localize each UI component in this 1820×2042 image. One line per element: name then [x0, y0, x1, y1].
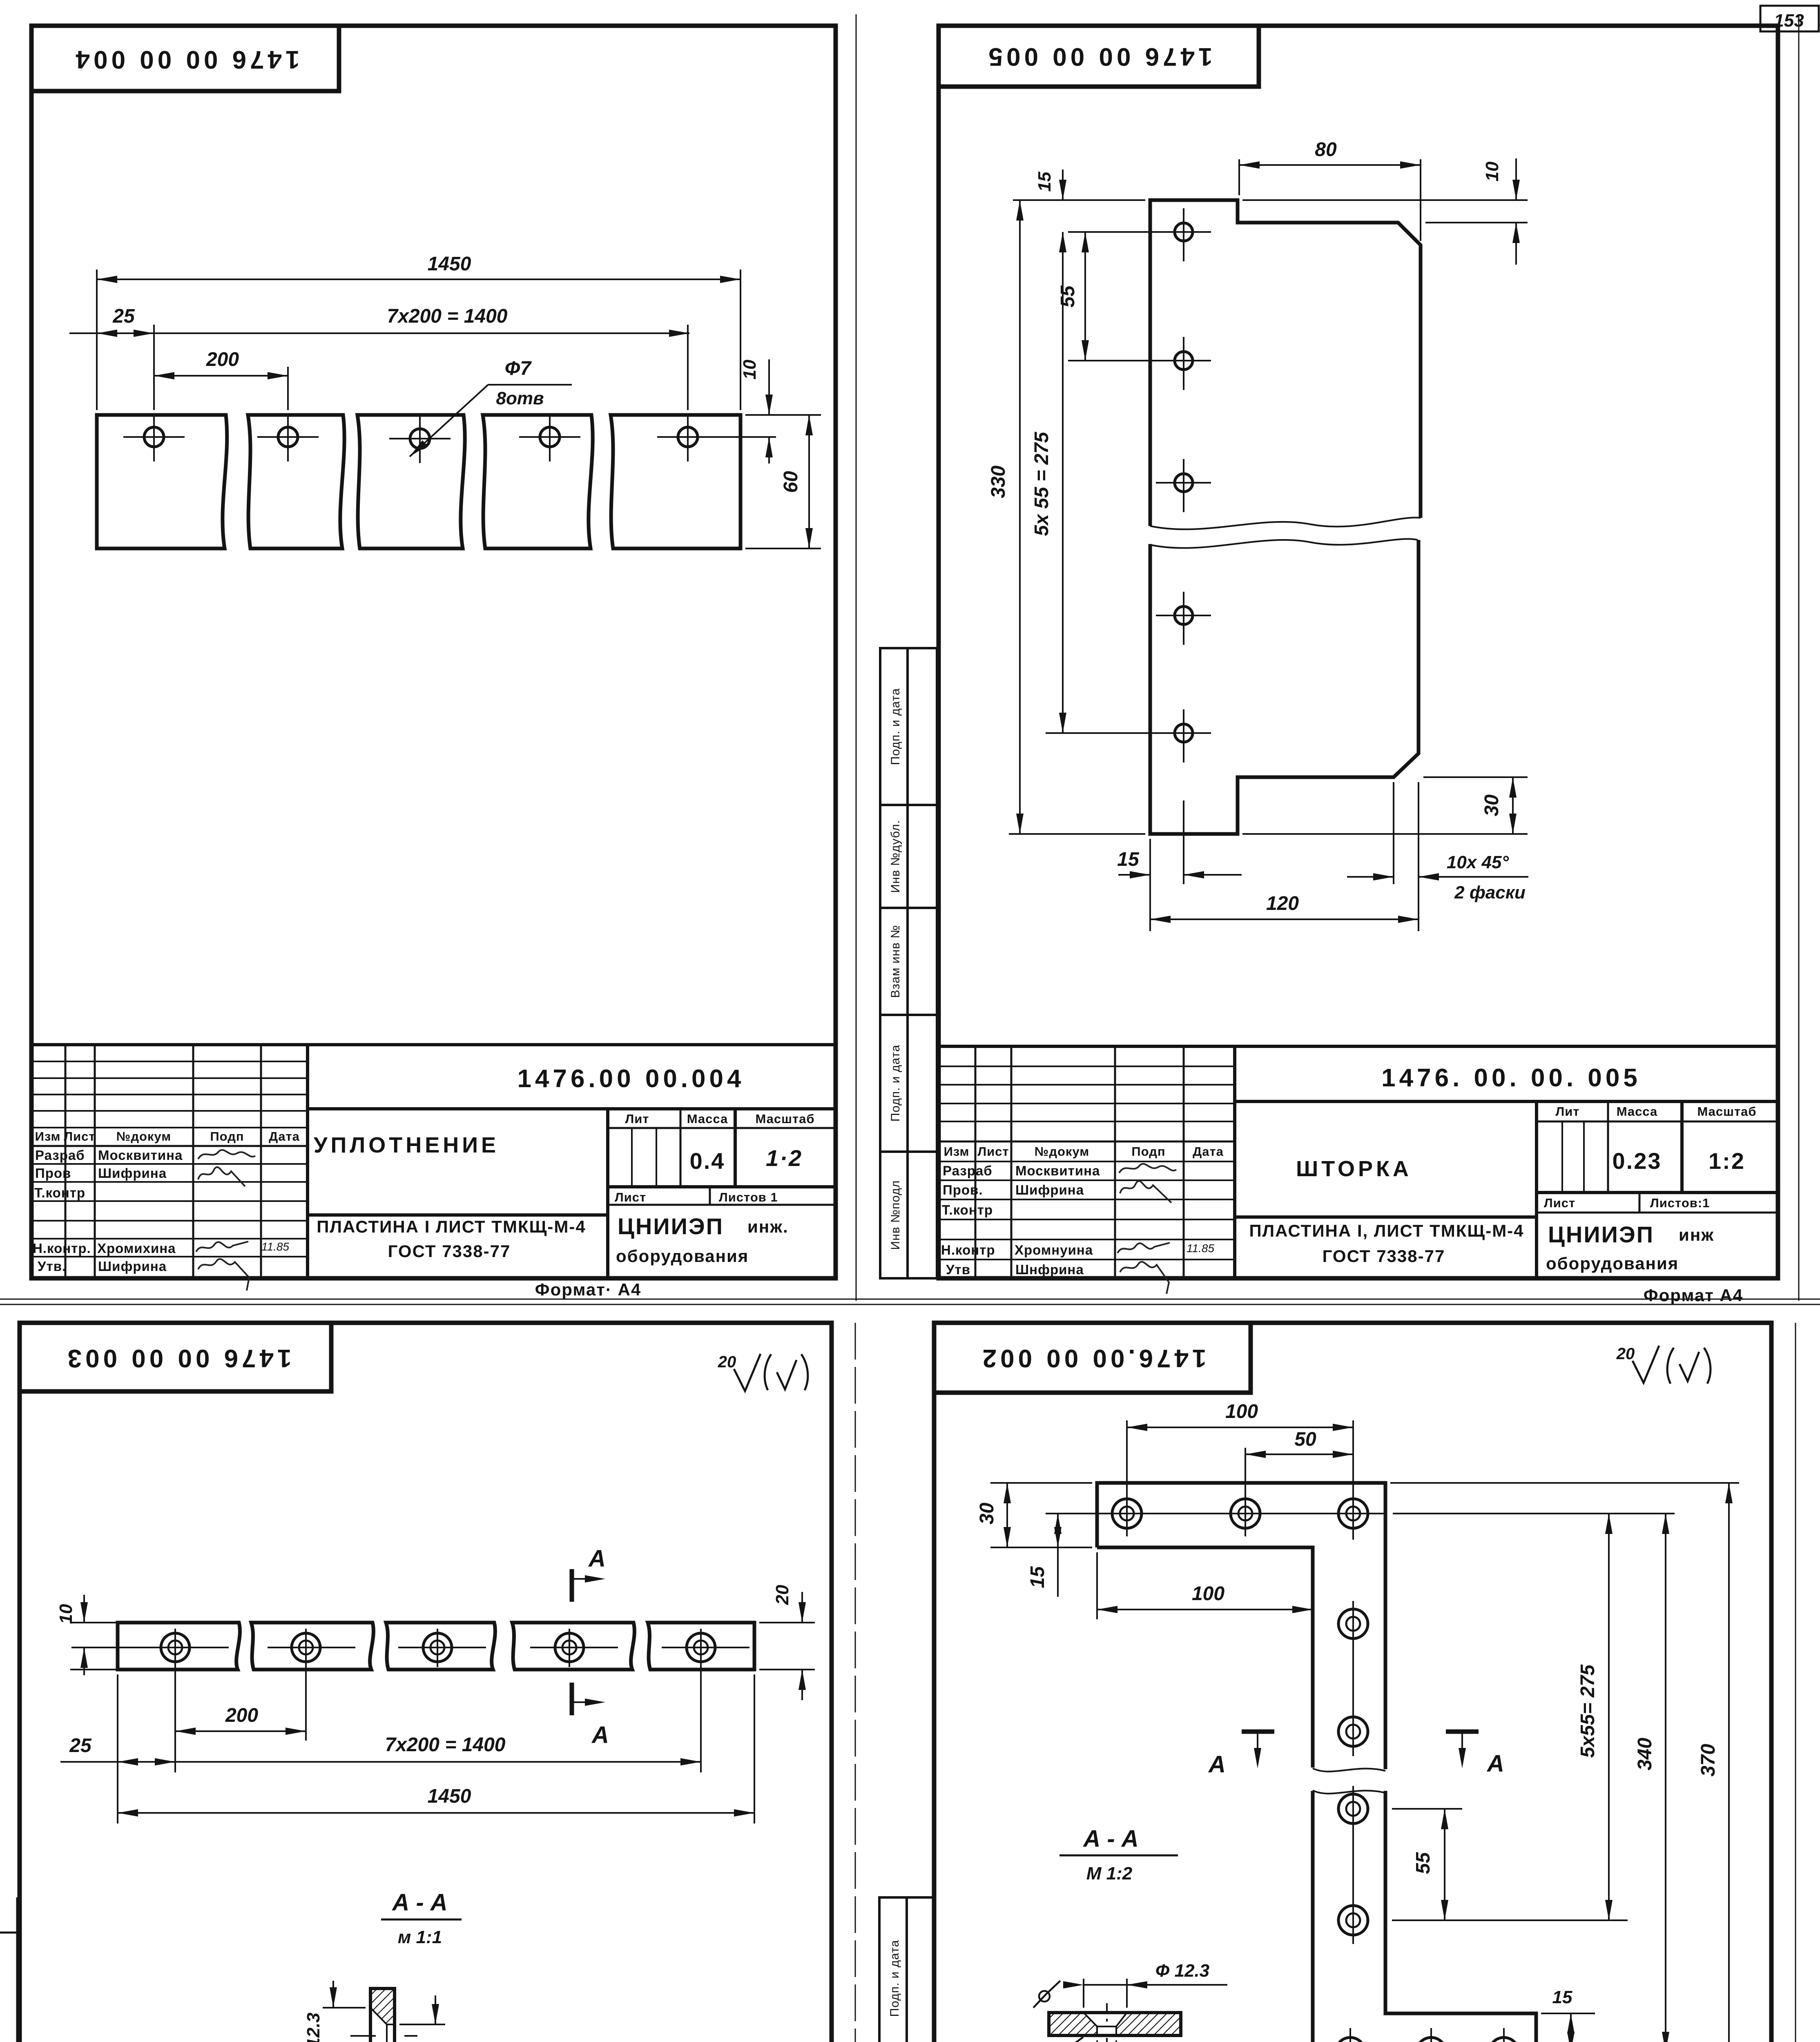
svg-text:10x 45°: 10x 45°	[1447, 852, 1509, 872]
svg-text:Хромихина: Хромихина	[97, 1241, 176, 1256]
break wavy lines	[1313, 1768, 1385, 1772]
svg-text:200: 200	[206, 349, 239, 370]
dim 30/15 left verticals	[1006, 1483, 1008, 1547]
label box TR	[939, 26, 1259, 87]
svg-text:Москвитина: Москвитина	[98, 1148, 183, 1163]
svg-text:30: 30	[1481, 794, 1503, 816]
csk hole 3	[423, 1633, 452, 1662]
svg-text:Подп. и дата: Подп. и дата	[888, 1940, 901, 2017]
hole 5	[1175, 724, 1193, 742]
svg-text:ПЛАСТИНА I ЛИСТ ТМКЩ-М-4: ПЛАСТИНА I ЛИСТ ТМКЩ-М-4	[317, 1217, 586, 1236]
svg-text:Пров.: Пров.	[943, 1182, 983, 1197]
svg-text:25: 25	[69, 1735, 92, 1757]
cut line horizontal double	[0, 1299, 1820, 1300]
svg-text:50: 50	[1294, 1429, 1316, 1450]
right dim verticals	[1728, 1483, 1730, 2042]
sheet frame bottom-right	[934, 1323, 1771, 2042]
csk hole stem4	[1338, 1906, 1368, 1935]
svg-text:Ф12.3: Ф12.3	[303, 2013, 323, 2042]
svg-text:8отв: 8отв	[496, 388, 544, 408]
svg-text:Масса: Масса	[687, 1112, 728, 1126]
extension lines	[1013, 199, 1145, 201]
csk hole stem2	[1338, 1717, 1368, 1746]
svg-text:Формат А4: Формат А4	[1644, 1286, 1743, 1305]
svg-text:10: 10	[56, 1604, 76, 1624]
svg-text:20: 20	[718, 1353, 736, 1371]
svg-text:1476. 00. 00. 005: 1476. 00. 00. 005	[1381, 1064, 1641, 1092]
hole 2	[278, 427, 298, 447]
plate segment 2	[248, 415, 344, 548]
plate segment 4	[483, 415, 593, 548]
svg-text:А - А: А - А	[391, 1889, 447, 1916]
label box BR	[934, 1323, 1251, 1393]
svg-text:Масштаб: Масштаб	[755, 1112, 814, 1126]
csk hole arm3	[1338, 1499, 1368, 1528]
machining marks	[1033, 1981, 1083, 2042]
svg-text:ГОСТ 7338-77: ГОСТ 7338-77	[388, 1242, 511, 1261]
label box TL	[31, 26, 339, 91]
hole 4	[540, 427, 560, 447]
right paper edge top	[1798, 16, 1800, 1301]
svg-text:120: 120	[1266, 893, 1299, 914]
dim 100/50 top lines	[1127, 1427, 1353, 1428]
svg-text:Подп: Подп	[1131, 1144, 1165, 1159]
svg-text:А: А	[591, 1722, 609, 1748]
svg-text:М 1:2: М 1:2	[1086, 1864, 1133, 1884]
hole 4	[1175, 606, 1193, 624]
dim 200	[154, 375, 288, 377]
section marks A	[1242, 1730, 1274, 1734]
sheet frame top-left	[31, 26, 836, 1278]
svg-text:Инв №подл: Инв №подл	[889, 1180, 902, 1250]
svg-text:Лист: Лист	[615, 1190, 646, 1204]
svg-text:Шифрина: Шифрина	[98, 1259, 167, 1274]
part outline upper piece	[1150, 200, 1421, 526]
svg-text:Изм: Изм	[35, 1129, 61, 1144]
dim 1450	[118, 1812, 754, 1814]
svg-text:Пров: Пров	[35, 1166, 71, 1181]
dim 15 bottom	[1118, 874, 1150, 876]
svg-text:Утв: Утв	[946, 1262, 970, 1277]
plate segment 3	[357, 415, 465, 548]
TR left-margin stamp column	[880, 648, 937, 1278]
svg-text:340: 340	[1634, 1738, 1656, 1770]
svg-text:Подп: Подп	[210, 1129, 244, 1144]
svg-text:м 1:1: м 1:1	[398, 1927, 442, 1947]
dim 25 / 7x200=1400	[69, 332, 689, 334]
svg-text:1450: 1450	[428, 253, 471, 275]
csk hole stem1	[1338, 1609, 1368, 1639]
svg-text:Масса: Масса	[1617, 1104, 1658, 1119]
svg-text:№докум: №докум	[116, 1129, 171, 1144]
hole 1	[144, 427, 164, 447]
break wavy lines	[1150, 517, 1421, 529]
svg-text:15: 15	[1027, 1566, 1048, 1588]
plate segment 2	[251, 1623, 373, 1670]
svg-text:Разраб: Разраб	[943, 1163, 993, 1178]
hole 1	[1175, 223, 1193, 241]
svg-text:2 фаски: 2 фаски	[1454, 883, 1526, 903]
cut line between columns top	[856, 14, 857, 1301]
dim 10 top right	[1515, 158, 1517, 200]
dim 25 / 7x200	[60, 1761, 701, 1763]
svg-text:Т.контр: Т.контр	[942, 1202, 993, 1217]
svg-text:А: А	[1486, 1750, 1504, 1777]
svg-text:Разраб: Разраб	[35, 1148, 85, 1163]
svg-text:Дата: Дата	[1193, 1144, 1224, 1159]
svg-text:Лит: Лит	[625, 1112, 649, 1126]
svg-text:5x55= 275: 5x55= 275	[1577, 1664, 1599, 1758]
page number box 153	[1760, 6, 1819, 31]
svg-text:ШТОРКА: ШТОРКА	[1296, 1157, 1412, 1181]
dim 100 lower	[1096, 1552, 1098, 1619]
section A-A BL	[370, 1988, 395, 2042]
svg-text:Ф7: Ф7	[505, 358, 532, 379]
dim 30 right	[1512, 777, 1514, 834]
svg-text:1476 00 00 003: 1476 00 00 003	[64, 1344, 292, 1372]
svg-text:Хромнуина: Хромнуина	[1015, 1242, 1093, 1257]
svg-text:Инв №дубл.: Инв №дубл.	[889, 820, 902, 893]
hole 3	[1175, 474, 1193, 492]
svg-text:Н.контр: Н.контр	[941, 1242, 995, 1257]
svg-text:Шнфрина: Шнфрина	[1015, 1262, 1084, 1277]
section A-A BR	[1049, 2013, 1181, 2035]
svg-text:Т.контр: Т.контр	[34, 1185, 85, 1200]
svg-text:Изм: Изм	[944, 1144, 970, 1159]
dim 1450	[97, 279, 740, 280]
svg-text:Лит: Лит	[1556, 1104, 1580, 1119]
F6.5 ext	[399, 2024, 445, 2025]
svg-text:ПЛАСТИНА I, ЛИСТ ТМКЩ-М-4: ПЛАСТИНА I, ЛИСТ ТМКЩ-М-4	[1249, 1221, 1524, 1240]
dim 60 right	[745, 548, 821, 549]
svg-text:55: 55	[1057, 285, 1079, 308]
signatures TR	[1117, 1164, 1176, 1294]
surface finish mark 20 v(v)	[734, 1354, 808, 1391]
svg-text:1450: 1450	[428, 1786, 471, 1807]
svg-text:1476.00 00 002: 1476.00 00 002	[979, 1344, 1207, 1372]
svg-text:100: 100	[1192, 1583, 1224, 1605]
svg-text:0.4: 0.4	[690, 1148, 725, 1174]
svg-text:Формат· А4: Формат· А4	[535, 1280, 641, 1299]
ext left	[990, 1482, 1092, 1484]
part outline lower piece	[1313, 1791, 1536, 2042]
csk hole arm1	[1112, 1499, 1142, 1528]
svg-text:Подп. и дата: Подп. и дата	[889, 1045, 902, 1122]
plate segment 1	[118, 1623, 240, 1670]
svg-text:30: 30	[976, 1503, 998, 1525]
svg-text:330: 330	[988, 466, 1009, 498]
svg-text:7x200 = 1400: 7x200 = 1400	[385, 1734, 506, 1756]
svg-text:ЦНИИЭП: ЦНИИЭП	[1548, 1222, 1654, 1247]
dim 120	[1150, 918, 1419, 920]
svg-text:15: 15	[1117, 849, 1140, 870]
arrowheads TL	[97, 276, 117, 283]
dim 10 right	[745, 414, 821, 416]
svg-text:Шифрина: Шифрина	[1015, 1182, 1084, 1197]
svg-text:25: 25	[112, 305, 135, 327]
svg-text:Взам инв №: Взам инв №	[889, 925, 902, 998]
right ext lines	[759, 1622, 815, 1623]
left ext lines	[70, 1622, 118, 1623]
svg-text:1476 00 00 005: 1476 00 00 005	[985, 42, 1213, 71]
svg-text:Лист: Лист	[977, 1144, 1009, 1159]
hole centerlines	[71, 1647, 229, 1648]
BL cut-off margin boxes at left page edge	[0, 1897, 17, 2042]
dim 80	[1239, 164, 1421, 166]
svg-text:УПЛОТНЕНИЕ: УПЛОТНЕНИЕ	[314, 1133, 499, 1157]
dim 10x45	[1347, 876, 1394, 878]
svg-text:оборудования: оборудования	[1546, 1254, 1679, 1273]
svg-text:15: 15	[1552, 1987, 1572, 2007]
svg-text:ГОСТ 7338-77: ГОСТ 7338-77	[1323, 1246, 1445, 1266]
right paper edge bottom	[1795, 1323, 1796, 2042]
csk hole arm2	[1231, 1499, 1260, 1528]
svg-text:А - А: А - А	[1082, 1826, 1138, 1852]
svg-text:Лист: Лист	[64, 1129, 95, 1144]
svg-text:инж: инж	[1679, 1225, 1714, 1244]
hole 3	[410, 429, 430, 448]
svg-text:инж.: инж.	[747, 1217, 789, 1236]
svg-text:Ф 12.3: Ф 12.3	[1155, 1961, 1209, 1981]
svg-text:№докум: №докум	[1035, 1144, 1089, 1159]
svg-text:Москвитина: Москвитина	[1015, 1163, 1100, 1178]
cut line between columns bottom	[855, 1323, 856, 2042]
svg-text:Листов 1: Листов 1	[719, 1190, 778, 1204]
svg-text:оборудования: оборудования	[616, 1246, 749, 1266]
svg-text:Шифрина: Шифрина	[98, 1166, 167, 1181]
svg-text:200: 200	[225, 1705, 258, 1726]
plate segment 5	[648, 1623, 754, 1670]
section mark A lower	[570, 1683, 574, 1715]
sheet frame top-right	[939, 26, 1778, 1278]
csk hole stem3	[1338, 1794, 1368, 1824]
plate segment 1	[97, 415, 227, 548]
part outline lower piece	[1150, 540, 1419, 834]
svg-text:Масштаб: Масштаб	[1697, 1104, 1756, 1119]
plate segment 3	[386, 1623, 495, 1670]
hole centerlines	[1068, 231, 1211, 233]
svg-text:20: 20	[1616, 1345, 1635, 1363]
svg-text:1:2: 1:2	[1708, 1148, 1745, 1174]
part outline upper piece	[1097, 1483, 1385, 1769]
centerlines	[1046, 1513, 1387, 1514]
svg-text:А: А	[1208, 1751, 1226, 1778]
svg-text:370: 370	[1697, 1744, 1719, 1777]
svg-text:1·2: 1·2	[766, 1145, 803, 1171]
svg-text:10: 10	[1482, 161, 1502, 181]
arrowheads BR	[1127, 1424, 1147, 1431]
label box BL	[20, 1323, 331, 1391]
csk hole 2	[292, 1633, 320, 1662]
axis	[350, 2035, 376, 2037]
hole centerlines	[123, 436, 185, 438]
extension lines up	[96, 270, 98, 410]
svg-text:10: 10	[740, 359, 760, 379]
csk hole 1	[161, 1633, 190, 1662]
csk hole 4	[555, 1633, 584, 1662]
ext lines top	[1126, 1420, 1128, 1491]
dim 200	[175, 1730, 306, 1732]
svg-text:1476 00 00 004: 1476 00 00 004	[72, 45, 300, 74]
right ext lines	[1390, 1482, 1739, 1484]
csk hole foot3	[1489, 2038, 1519, 2042]
svg-text:0.23: 0.23	[1613, 1148, 1662, 1174]
svg-text:153: 153	[1774, 11, 1804, 31]
hole 5	[678, 427, 698, 447]
BR left-margin stamp column	[879, 1897, 934, 2042]
surface finish mark 20 v(v)	[1633, 1346, 1711, 1384]
csk hole foot1	[1336, 2038, 1365, 2042]
svg-text:Листов:1: Листов:1	[1650, 1196, 1710, 1210]
ext down	[117, 1674, 118, 1824]
arrowheads TR	[1512, 180, 1520, 200]
svg-text:11.85: 11.85	[1187, 1242, 1214, 1255]
svg-text:ЦНИИЭП: ЦНИИЭП	[618, 1213, 724, 1239]
F12.3 ext	[323, 2007, 366, 2009]
hole 2	[1175, 352, 1193, 370]
svg-text:1476.00 00.004: 1476.00 00.004	[517, 1065, 745, 1093]
svg-text:55: 55	[1412, 1852, 1434, 1874]
svg-text:20: 20	[772, 1585, 792, 1605]
plate segment 5	[611, 415, 740, 548]
signatures TL	[196, 1150, 255, 1291]
csk hole foot2	[1416, 2038, 1446, 2042]
svg-text:А: А	[588, 1545, 606, 1572]
leader F7	[410, 385, 488, 457]
svg-text:Утв.: Утв.	[38, 1259, 66, 1274]
svg-text:60: 60	[780, 471, 802, 493]
plate segment 4	[512, 1623, 634, 1670]
svg-text:Подп. и дата: Подп. и дата	[889, 688, 902, 765]
csk hole 5	[687, 1633, 715, 1662]
section mark A upper	[570, 1569, 574, 1602]
svg-text:11.85: 11.85	[261, 1240, 289, 1253]
svg-text:15: 15	[1035, 172, 1055, 192]
svg-text:7x200 = 1400: 7x200 = 1400	[387, 305, 508, 327]
dim 10 left	[83, 1595, 85, 1623]
sheet frame bottom-left	[20, 1323, 832, 2042]
svg-text:Н.контр.: Н.контр.	[33, 1241, 91, 1256]
dim 15 top + 5x55 + 330 verticals	[1062, 169, 1064, 200]
svg-text:100: 100	[1225, 1401, 1258, 1422]
arrowheads BL	[80, 1602, 88, 1623]
svg-text:Дата: Дата	[269, 1129, 300, 1144]
dim 20 right	[801, 1592, 803, 1623]
svg-text:80: 80	[1315, 139, 1337, 161]
svg-text:5x 55 = 275: 5x 55 = 275	[1031, 431, 1053, 536]
svg-text:Лист: Лист	[1544, 1196, 1575, 1210]
